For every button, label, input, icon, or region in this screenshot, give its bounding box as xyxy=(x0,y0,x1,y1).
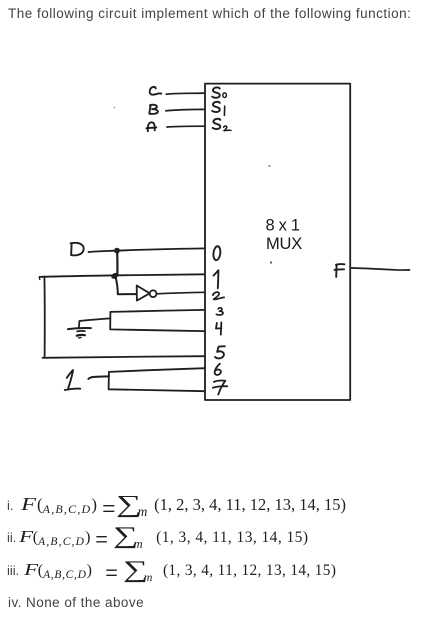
wire F output xyxy=(350,268,409,270)
pin label 4 xyxy=(216,322,222,334)
mux U1 8x1 box xyxy=(205,84,350,400)
inverter U2 NOT gate xyxy=(137,286,150,301)
junction node dot (D branch) xyxy=(114,248,120,254)
pin label S0 xyxy=(212,87,220,97)
logic 1 label xyxy=(65,370,80,390)
ground symbol xyxy=(68,328,91,329)
wire D to pin 0 xyxy=(89,248,205,252)
wire inverter output to pin 2 xyxy=(157,292,205,294)
wire left rail vertical xyxy=(43,277,45,358)
svg-text:8 x 1: 8 x 1 xyxy=(266,217,301,235)
stray dot a xyxy=(268,165,270,167)
wire junction to inverter input xyxy=(115,276,136,294)
pin label 0 xyxy=(213,246,221,261)
wire rail to pin 5 xyxy=(43,356,205,358)
input label A xyxy=(146,122,156,131)
pin label S1 xyxy=(212,102,220,112)
svg-text:MUX: MUX xyxy=(266,235,302,253)
wire B to S1 xyxy=(166,109,205,110)
pin label 6 xyxy=(215,364,221,375)
wire ground to bus34 xyxy=(79,318,110,328)
wire left end tick xyxy=(38,277,40,279)
bus wires pins 3 and 4 xyxy=(110,310,205,331)
pin label 2 xyxy=(213,292,224,299)
input label D xyxy=(71,243,84,256)
wire C to S0 xyxy=(166,93,204,94)
pin label 7 xyxy=(213,381,227,395)
input label B xyxy=(149,105,158,114)
output label F xyxy=(335,264,345,277)
pin label 5 xyxy=(215,346,225,358)
wire A to S2 xyxy=(167,125,205,128)
stray dot b xyxy=(270,261,272,263)
input label C xyxy=(150,87,162,95)
stray dot c xyxy=(113,107,115,109)
bus wires pins 6 and 7 xyxy=(109,368,205,391)
wire 1 to bus67 xyxy=(88,376,108,379)
wire left rail to pin 1 xyxy=(40,274,205,277)
pin label S2 xyxy=(213,119,221,129)
pin label 1 xyxy=(214,270,219,288)
wire vertical D branch xyxy=(116,251,119,276)
junction node dot 2 xyxy=(110,272,119,280)
pin label 3 xyxy=(216,308,223,315)
